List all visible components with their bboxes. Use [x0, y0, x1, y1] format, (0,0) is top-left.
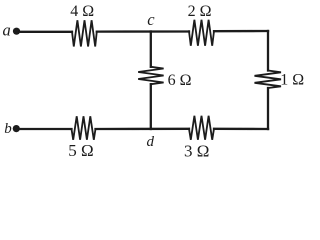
- svg-text:5 Ω: 5 Ω: [68, 141, 93, 160]
- svg-text:4 Ω: 4 Ω: [70, 3, 94, 20]
- wire R 4ohm to node c and on to R 2ohm: [97, 30, 189, 32]
- svg-text:c: c: [147, 10, 155, 29]
- wire middle branch upper segment (c down): [150, 32, 152, 67]
- wire a to R 4ohm: [20, 31, 72, 33]
- resistor R 5ohm zigzag: [72, 116, 96, 140]
- svg-text:3 Ω: 3 Ω: [184, 142, 209, 161]
- wire R 5ohm to node d and on to R 3ohm: [96, 128, 190, 130]
- resistor R 6ohm zigzag: [138, 67, 163, 84]
- svg-text:a: a: [3, 21, 11, 40]
- svg-text:6 Ω: 6 Ω: [168, 72, 192, 89]
- resistor R 1ohm zigzag: [255, 71, 282, 89]
- wire b to R 5ohm: [20, 128, 72, 130]
- resistor R 3ohm zigzag: [189, 116, 214, 140]
- svg-text:2 Ω: 2 Ω: [188, 3, 212, 20]
- node b terminal dot: [13, 125, 20, 132]
- resistor R 2ohm zigzag: [189, 20, 214, 46]
- svg-text:b: b: [4, 121, 12, 137]
- wire R 2ohm to top-right corner: [214, 30, 268, 33]
- wire R 3ohm to bottom-right corner: [214, 128, 268, 130]
- wire right branch lower segment: [267, 88, 269, 129]
- node a terminal dot: [13, 28, 20, 35]
- svg-text:d: d: [147, 134, 155, 150]
- wire right branch upper segment: [267, 31, 269, 71]
- resistor R 4ohm zigzag: [72, 20, 97, 46]
- wire middle branch lower segment (to d): [150, 84, 152, 129]
- svg-text:1 Ω: 1 Ω: [280, 72, 304, 89]
